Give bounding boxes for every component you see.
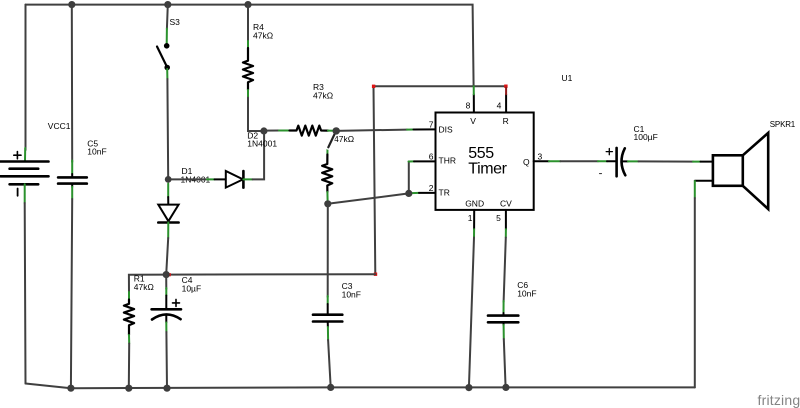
wire speaker bottom terminal xyxy=(695,180,713,182)
node junction D1 / R1 / C4 / wire xyxy=(163,271,170,278)
svg-text:SPKR1: SPKR1 xyxy=(770,120,796,129)
pin 1 GND leg xyxy=(473,210,475,229)
switch lever at R3 node xyxy=(328,132,336,148)
node junction ground rail / C6 xyxy=(502,384,509,391)
wire horizontal y86 xyxy=(374,85,506,87)
node junction top rail / C5 xyxy=(68,1,75,8)
svg-text:GND: GND xyxy=(465,198,484,208)
pin 4 R leg xyxy=(505,94,507,112)
diode D2 xyxy=(168,178,207,180)
pin 8 V leg xyxy=(473,94,475,112)
node red end right xyxy=(504,85,507,88)
wire left rail down to battery xyxy=(25,5,27,150)
pin 5 CV leg xyxy=(505,210,507,229)
svg-text:47kΩ: 47kΩ xyxy=(334,134,354,144)
svg-text:5: 5 xyxy=(496,213,501,223)
node junction R4 / D2 / R3 xyxy=(260,127,267,134)
capacitor C5 xyxy=(58,177,87,183)
wire C5 bottom xyxy=(71,184,73,187)
capacitor C3 xyxy=(327,204,329,297)
wire pin1 to ground rail xyxy=(469,238,474,389)
svg-text:2: 2 xyxy=(429,183,434,193)
wire vertical x373 xyxy=(374,86,376,274)
diode D1 xyxy=(167,184,169,198)
node red end bottom xyxy=(374,273,377,276)
wire C1 to speaker xyxy=(628,160,639,162)
capacitor C6 xyxy=(504,238,506,303)
wire to R1 xyxy=(129,275,166,292)
svg-text:7: 7 xyxy=(429,120,434,130)
wire top power rail xyxy=(26,5,474,87)
resistor R3 xyxy=(264,130,279,132)
speaker SPKR1 xyxy=(713,155,743,186)
wire C5 branch top xyxy=(71,5,73,162)
node junction ground rail / C4 xyxy=(163,385,170,392)
node junction top rail / R4 xyxy=(244,1,251,8)
IC U1 555 timer box xyxy=(436,113,534,210)
svg-text:TR: TR xyxy=(439,187,450,197)
svg-text:CV: CV xyxy=(500,198,512,208)
node junction ground rail / pin1 xyxy=(465,384,472,391)
wire TR diagonal to R2 node xyxy=(328,193,409,203)
svg-text:fritzing: fritzing xyxy=(758,392,800,408)
resistor R4 xyxy=(247,5,249,42)
node junction top rail / S3 xyxy=(164,1,171,8)
svg-text:1: 1 xyxy=(468,213,473,223)
wire horizontal y274 from D1 node to x375 xyxy=(166,273,375,275)
svg-text:V: V xyxy=(470,116,476,126)
capacitor C4 electrolytic xyxy=(165,275,167,289)
svg-text:DIS: DIS xyxy=(439,125,454,135)
pin 2 TR leg xyxy=(419,192,436,194)
svg-text:U1: U1 xyxy=(562,73,573,83)
svg-text:S3: S3 xyxy=(170,17,181,27)
capacitor C1 electrolytic xyxy=(615,148,618,176)
node junction R2 / TR wire / C3 xyxy=(324,200,331,207)
resistor R1 xyxy=(128,292,130,300)
battery VCC1 xyxy=(1,152,49,196)
svg-text:THR: THR xyxy=(439,156,456,166)
svg-text:3: 3 xyxy=(538,152,543,162)
node red speck at D1C4 node xyxy=(168,273,171,276)
wire DIS to node xyxy=(336,130,407,131)
wire battery bottom to ground rail xyxy=(24,184,26,203)
svg-text:R: R xyxy=(503,116,509,126)
wire Q to C1 xyxy=(560,160,598,162)
pin 3 Q leg xyxy=(534,160,549,162)
node junction D1 D2 xyxy=(165,176,172,183)
switch S3 xyxy=(166,5,169,29)
wire THR xyxy=(408,162,410,194)
pin 6 THR leg xyxy=(414,160,436,162)
wire S3 bottom to D1 node xyxy=(166,69,168,79)
resistor R2 47k vertical xyxy=(326,147,328,155)
node junction R3 / R2 / DIS xyxy=(333,127,340,134)
node junction ground rail / C5 xyxy=(67,385,74,392)
wire bottom ground rail xyxy=(26,384,695,389)
node red end left xyxy=(372,85,375,88)
node junction THR / TR xyxy=(405,190,412,197)
wire R4 bottom to D2 node xyxy=(248,98,262,131)
svg-text:4: 4 xyxy=(497,100,502,110)
node junction ground rail / C3 xyxy=(327,384,334,391)
svg-text:6: 6 xyxy=(429,152,434,162)
svg-text:Q: Q xyxy=(523,157,530,167)
node junction ground rail / R1 xyxy=(125,385,132,392)
svg-text:VCC1: VCC1 xyxy=(48,121,71,131)
pin 7 DIS leg xyxy=(414,128,436,130)
svg-text:8: 8 xyxy=(466,100,471,110)
